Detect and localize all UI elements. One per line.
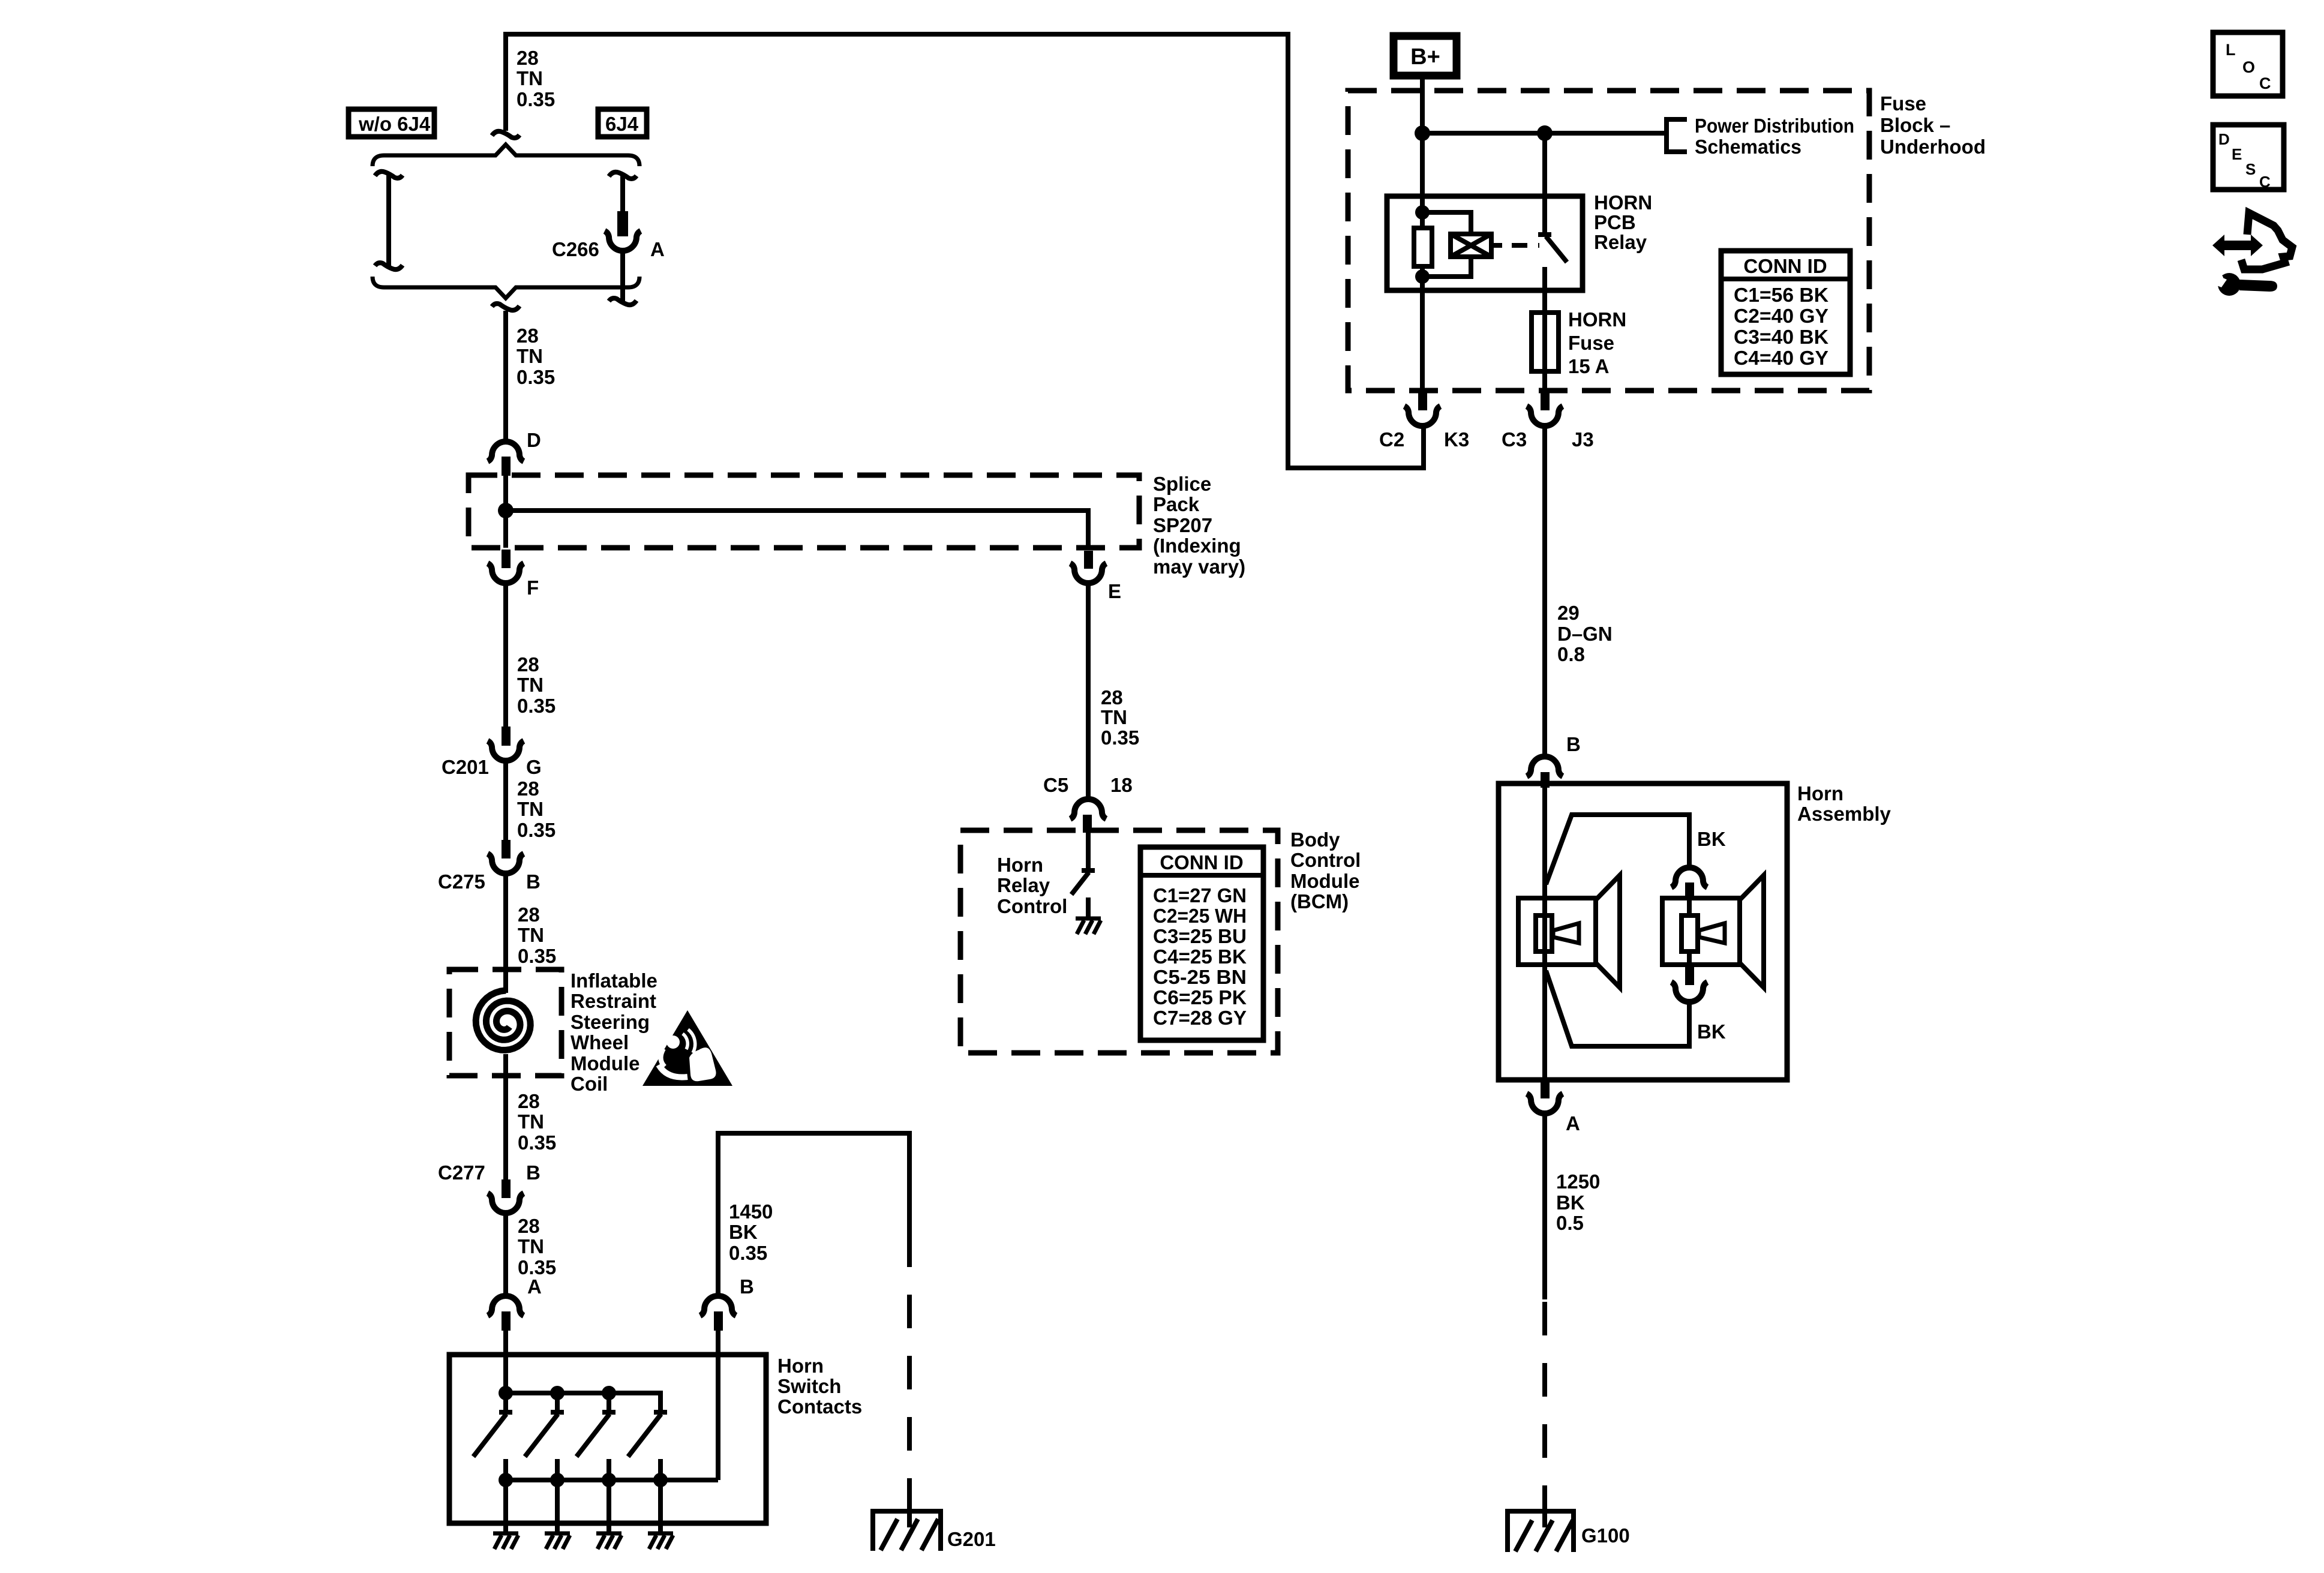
DESC reference box bbox=[2213, 125, 2284, 190]
option box 6J4 bbox=[598, 109, 647, 137]
relay coil winding symbol bbox=[1422, 212, 1471, 234]
svg-text:28: 28 bbox=[517, 778, 539, 800]
brace: option split (top) bbox=[373, 145, 639, 166]
svg-text:Control: Control bbox=[1290, 849, 1361, 871]
svg-text:18: 18 bbox=[1110, 774, 1133, 796]
svg-text:D–GN: D–GN bbox=[1557, 623, 1613, 645]
ground symbol (switch 4) bbox=[648, 1533, 673, 1549]
node: B+ junction bbox=[1415, 125, 1430, 141]
svg-text:C7=28 GY: C7=28 GY bbox=[1153, 1007, 1247, 1029]
wire: dashed drop to G201 bbox=[907, 1233, 912, 1497]
horn relay control driver switch bbox=[1071, 833, 1095, 917]
horn switch contacts box bbox=[449, 1355, 766, 1523]
svg-text:may vary): may vary) bbox=[1153, 556, 1245, 578]
node: ground bus junction 4 bbox=[653, 1473, 668, 1487]
switch contact 3 bbox=[577, 1393, 615, 1532]
wire: E down to BCM C5 bbox=[1086, 584, 1091, 799]
svg-text:A: A bbox=[1566, 1112, 1580, 1134]
svg-text:A: A bbox=[527, 1275, 542, 1298]
svg-text:C201: C201 bbox=[442, 756, 489, 778]
svg-text:TN: TN bbox=[518, 924, 544, 946]
svg-text:C3=40 BK: C3=40 BK bbox=[1734, 326, 1828, 348]
svg-text:Steering: Steering bbox=[571, 1011, 650, 1033]
node: ground bus junction 3 bbox=[602, 1473, 616, 1487]
BCM CONN ID table bbox=[1140, 847, 1263, 1040]
svg-text:Block –: Block – bbox=[1880, 114, 1950, 136]
wire: steering column feed down to splice pack bbox=[503, 311, 508, 442]
svg-text:C3: C3 bbox=[1502, 428, 1527, 451]
horn (left): driver and bell bbox=[1518, 898, 1596, 965]
svg-text:15 A: 15 A bbox=[1568, 355, 1609, 377]
wire hook at option break (top) bbox=[492, 131, 520, 138]
svg-text:CONN ID: CONN ID bbox=[1160, 851, 1243, 873]
ground symbol (switch 3) bbox=[596, 1533, 621, 1549]
svg-text:0.35: 0.35 bbox=[1101, 727, 1139, 749]
svg-text:TN: TN bbox=[517, 345, 543, 367]
relay switch contact bbox=[1538, 235, 1567, 313]
svg-text:0.35: 0.35 bbox=[517, 695, 556, 717]
label: Fuse Block - Underhood bbox=[1880, 92, 1986, 158]
svg-text:0.35: 0.35 bbox=[729, 1242, 767, 1264]
wire label 28 TN 0.35 (E leg) bbox=[1101, 686, 1139, 749]
svg-text:6J4: 6J4 bbox=[605, 113, 639, 135]
node: top bus junction 1 bbox=[499, 1386, 513, 1400]
svg-text:BK: BK bbox=[1556, 1191, 1585, 1214]
svg-text:0.35: 0.35 bbox=[517, 88, 555, 110]
svg-text:Body: Body bbox=[1290, 828, 1340, 851]
svg-text:Horn: Horn bbox=[997, 854, 1043, 876]
svg-text:C266: C266 bbox=[552, 238, 599, 260]
wire label 29 D-GN 0.8 bbox=[1557, 602, 1613, 665]
svg-text:w/o 6J4: w/o 6J4 bbox=[358, 113, 431, 135]
connector F bbox=[502, 550, 511, 568]
wire: 6J4 branch lower bbox=[620, 252, 625, 303]
wire: inside splice pack bbox=[503, 474, 508, 548]
svg-text:0.8: 0.8 bbox=[1557, 643, 1585, 665]
svg-text:Splice: Splice bbox=[1153, 473, 1211, 495]
svg-text:C275: C275 bbox=[438, 870, 485, 893]
svg-text:C2: C2 bbox=[1379, 428, 1404, 451]
horn PCB relay box bbox=[1387, 196, 1583, 290]
svg-text:HORN: HORN bbox=[1594, 191, 1652, 214]
svg-text:Power Distribution: Power Distribution bbox=[1695, 115, 1854, 137]
svg-text:28: 28 bbox=[518, 1090, 540, 1112]
svg-text:C4=40 GY: C4=40 GY bbox=[1734, 347, 1828, 369]
wire: right horn driver through bbox=[1687, 898, 1692, 966]
wire: C275 down to coil bbox=[503, 874, 508, 993]
relay coil resistor bbox=[1414, 228, 1432, 266]
svg-text:28: 28 bbox=[518, 1215, 540, 1237]
wire: switch ground bus (bottom) bbox=[506, 1478, 718, 1482]
svg-text:B: B bbox=[526, 870, 541, 893]
switch contact 1 bbox=[473, 1393, 512, 1532]
label: Horn Relay Control bbox=[997, 854, 1067, 917]
svg-text:Pack: Pack bbox=[1153, 493, 1200, 515]
label: Splice Pack SP207 (Indexing may vary) bbox=[1153, 473, 1245, 578]
wire: 6J4 branch upper bbox=[620, 174, 625, 212]
ground symbol (BCM internal) bbox=[1076, 918, 1101, 934]
svg-text:C4=25 BK: C4=25 BK bbox=[1153, 945, 1247, 968]
wire: switch common bus (top) bbox=[506, 1393, 660, 1411]
icon: repair/navigation arrow with wrench bbox=[2206, 213, 2292, 296]
svg-text:J3: J3 bbox=[1572, 428, 1594, 451]
wire label 28 TN 0.35 (below coil) bbox=[518, 1090, 556, 1154]
svg-text:Contacts: Contacts bbox=[777, 1395, 862, 1418]
svg-text:TN: TN bbox=[517, 674, 544, 696]
svg-text:G100: G100 bbox=[1581, 1524, 1630, 1547]
svg-text:BK: BK bbox=[729, 1221, 758, 1243]
connector A (into horn switch) bbox=[488, 1296, 524, 1316]
svg-text:C: C bbox=[2259, 74, 2271, 92]
svg-text:K3: K3 bbox=[1444, 428, 1469, 451]
label: Inflatable Restraint Steering Wheel Module Coil bbox=[571, 969, 657, 1095]
svg-text:TN: TN bbox=[517, 67, 543, 89]
inflatable restraint steering wheel module coil dashed box bbox=[449, 969, 562, 1076]
fuse block underhood dashed box bbox=[1348, 91, 1869, 391]
wire: w/o 6J4 branch (plain wire) bbox=[386, 173, 391, 268]
body control module dashed box bbox=[960, 830, 1278, 1053]
switch contact 2 bbox=[525, 1393, 564, 1532]
wire label 28 TN 0.35 (below C275) bbox=[518, 903, 556, 967]
svg-text:G201: G201 bbox=[947, 1528, 996, 1550]
connector C2 pin K3 bbox=[1418, 391, 1427, 410]
svg-text:L: L bbox=[2226, 41, 2236, 59]
horn assembly box bbox=[1499, 784, 1787, 1080]
wire label 28 TN 0.35 (above pin A) bbox=[518, 1215, 556, 1278]
in-line connector (right horn feed) bbox=[1671, 867, 1707, 887]
wire: pin B to G201 run bbox=[718, 1133, 909, 1293]
icon: SRS caution triangle bbox=[642, 1010, 732, 1086]
svg-text:B+: B+ bbox=[1410, 44, 1440, 70]
svg-text:0.35: 0.35 bbox=[518, 1131, 556, 1154]
ground G201 bbox=[873, 1511, 941, 1551]
svg-text:0.35: 0.35 bbox=[517, 366, 555, 388]
svg-text:C2=25 WH: C2=25 WH bbox=[1153, 905, 1247, 927]
svg-text:BK: BK bbox=[1697, 828, 1726, 850]
connector C266 pin A bbox=[617, 211, 628, 236]
svg-text:1250: 1250 bbox=[1556, 1170, 1600, 1193]
connector E bbox=[1084, 551, 1093, 569]
svg-text:29: 29 bbox=[1557, 602, 1580, 624]
svg-text:TN: TN bbox=[518, 1110, 544, 1133]
node: top bus junction 2 bbox=[550, 1386, 565, 1400]
wire label 28 TN 0.35 (top) bbox=[517, 47, 555, 110]
svg-text:PCB: PCB bbox=[1594, 211, 1636, 233]
svg-text:1450: 1450 bbox=[729, 1200, 773, 1223]
svg-text:C6=25 PK: C6=25 PK bbox=[1153, 986, 1247, 1008]
wire label 28 TN 0.35 (below C201) bbox=[517, 778, 556, 841]
node: ground bus junction 1 bbox=[499, 1473, 513, 1487]
wire: power distribution tap bbox=[1422, 131, 1667, 136]
svg-text:E: E bbox=[2232, 145, 2242, 163]
connector C201 pin G bbox=[502, 727, 511, 746]
svg-text:C277: C277 bbox=[438, 1161, 485, 1184]
power feed B+ terminal bbox=[1394, 36, 1457, 76]
svg-text:Module: Module bbox=[571, 1052, 639, 1074]
wire: pin A lead into switch box bbox=[503, 1331, 508, 1393]
wire: pin A down bbox=[1542, 1114, 1547, 1299]
svg-text:Wheel: Wheel bbox=[571, 1031, 629, 1053]
svg-text:28: 28 bbox=[517, 325, 539, 347]
horn (right): driver and bell bbox=[1662, 898, 1740, 965]
label: Body Control Module (BCM) bbox=[1290, 828, 1361, 912]
svg-text:0.5: 0.5 bbox=[1556, 1212, 1584, 1234]
connector C275 pin B bbox=[502, 840, 511, 858]
fuse block CONN ID table bbox=[1721, 251, 1850, 374]
wire: C3 down to horn assembly pin B bbox=[1542, 427, 1547, 755]
svg-text:Horn: Horn bbox=[1797, 782, 1843, 804]
wire: top main run from steering-wheel circuit to fuse block C2 bbox=[506, 34, 1424, 468]
svg-text:HORN: HORN bbox=[1568, 308, 1626, 331]
svg-text:Inflatable: Inflatable bbox=[571, 969, 657, 992]
svg-text:28: 28 bbox=[517, 653, 539, 676]
connector D (into splice pack SP207) bbox=[488, 442, 524, 461]
svg-text:Relay: Relay bbox=[1594, 231, 1647, 253]
svg-text:0.35: 0.35 bbox=[518, 945, 556, 967]
switch contact 4 bbox=[628, 1412, 667, 1532]
svg-text:28: 28 bbox=[517, 47, 539, 69]
coil: clockspring spiral bbox=[476, 990, 530, 1050]
ground G100 bbox=[1508, 1511, 1574, 1552]
svg-text:TN: TN bbox=[1101, 706, 1127, 728]
svg-text:C2=40 GY: C2=40 GY bbox=[1734, 305, 1828, 327]
connector C5 pin 18 (into BCM) bbox=[1070, 799, 1106, 819]
wire: C277 down to horn switch pin A bbox=[503, 1214, 508, 1294]
svg-text:Module: Module bbox=[1290, 870, 1359, 892]
svg-text:S: S bbox=[2245, 160, 2256, 178]
node: splice junction bbox=[498, 503, 514, 518]
label: Horn Switch Contacts bbox=[777, 1355, 862, 1418]
node: relay coil top junction bbox=[1415, 205, 1430, 220]
svg-text:D: D bbox=[527, 429, 541, 451]
wire: pin B through left horn to pin A bbox=[1542, 788, 1547, 1080]
svg-text:Assembly: Assembly bbox=[1797, 803, 1891, 825]
horn fuse 15 A bbox=[1532, 313, 1559, 371]
LOC reference box bbox=[2213, 32, 2283, 96]
svg-text:E: E bbox=[1108, 580, 1121, 602]
svg-text:28: 28 bbox=[518, 903, 540, 926]
svg-text:Relay: Relay bbox=[997, 874, 1050, 896]
in-line connector (right horn return) bbox=[1685, 966, 1694, 985]
node: top bus junction 3 bbox=[602, 1386, 616, 1400]
wire: coil output down to C277 bbox=[503, 1054, 508, 1179]
wire: pin B lead into switch box bbox=[716, 1331, 720, 1480]
svg-text:D: D bbox=[2218, 130, 2230, 148]
splice pack SP207 dashed box bbox=[469, 475, 1139, 548]
svg-text:28: 28 bbox=[1101, 686, 1123, 709]
svg-text:B: B bbox=[526, 1161, 541, 1184]
svg-text:Fuse: Fuse bbox=[1880, 92, 1926, 115]
wire label 28 TN 0.35 (below F) bbox=[517, 653, 556, 717]
svg-text:TN: TN bbox=[517, 798, 544, 820]
svg-text:Fuse: Fuse bbox=[1568, 332, 1614, 354]
svg-text:Control: Control bbox=[997, 895, 1067, 917]
svg-text:G: G bbox=[526, 756, 542, 778]
svg-text:BK: BK bbox=[1697, 1020, 1726, 1043]
svg-text:TN: TN bbox=[518, 1235, 544, 1257]
wire: dashed drop to G100 bbox=[1542, 1302, 1547, 1497]
connector B (into horn switch) bbox=[700, 1296, 736, 1316]
wire: branch to right horn (bottom) bbox=[1546, 971, 1689, 1046]
svg-text:(Indexing: (Indexing bbox=[1153, 535, 1241, 557]
brace: option merge (bottom) bbox=[373, 277, 639, 298]
wire: branch to right horn (top) bbox=[1546, 815, 1689, 884]
svg-text:Underhood: Underhood bbox=[1880, 136, 1986, 158]
svg-text:C1=56 BK: C1=56 BK bbox=[1734, 284, 1828, 306]
label: Horn Assembly bbox=[1797, 782, 1891, 825]
svg-text:B: B bbox=[1566, 733, 1581, 755]
label: HORN PCB Relay bbox=[1594, 191, 1652, 253]
svg-text:C3=25 BU: C3=25 BU bbox=[1153, 925, 1247, 947]
wire label 1450 BK 0.35 bbox=[729, 1200, 773, 1264]
relay actuator dashed link bbox=[1491, 243, 1502, 248]
connector A (horn assembly output) bbox=[1541, 1081, 1550, 1098]
wire: fuse to C3 bbox=[1542, 371, 1547, 391]
svg-text:SP207: SP207 bbox=[1153, 514, 1212, 536]
wire: switch feed drop bbox=[1542, 133, 1547, 233]
wire: splice pack crossover to E leg bbox=[506, 511, 1088, 549]
svg-text:C5-25 BN: C5-25 BN bbox=[1153, 966, 1247, 988]
svg-text:Restraint: Restraint bbox=[571, 990, 656, 1012]
connector C277 pin B bbox=[502, 1179, 511, 1198]
wire: C201 to C275 bbox=[503, 761, 508, 840]
ground symbol (switch 1) bbox=[493, 1533, 518, 1549]
svg-text:C5: C5 bbox=[1043, 774, 1068, 796]
ground symbol (switch 2) bbox=[545, 1533, 570, 1549]
svg-text:CONN ID: CONN ID bbox=[1743, 255, 1827, 277]
svg-text:F: F bbox=[527, 577, 539, 599]
wire hook at option break (bottom) bbox=[492, 304, 520, 310]
off-page bracket: Power Distribution Schematics bbox=[1667, 119, 1687, 152]
svg-text:0.35: 0.35 bbox=[517, 819, 556, 841]
svg-text:C1=27 GN: C1=27 GN bbox=[1153, 884, 1247, 906]
svg-text:(BCM): (BCM) bbox=[1290, 890, 1349, 912]
node: relay coil bottom junction bbox=[1415, 269, 1430, 284]
svg-text:Schematics: Schematics bbox=[1695, 136, 1801, 158]
svg-text:O: O bbox=[2242, 58, 2255, 76]
svg-text:C: C bbox=[2259, 173, 2271, 191]
node: switch feed junction bbox=[1537, 125, 1553, 141]
option box w/o 6J4 bbox=[349, 109, 434, 137]
svg-text:Horn: Horn bbox=[777, 1355, 824, 1377]
svg-text:Coil: Coil bbox=[571, 1073, 608, 1095]
svg-text:A: A bbox=[650, 238, 665, 260]
connector B (into horn assembly) bbox=[1527, 757, 1563, 776]
svg-text:Switch: Switch bbox=[777, 1375, 841, 1397]
node: ground bus junction 2 bbox=[550, 1473, 565, 1487]
svg-text:B: B bbox=[740, 1275, 754, 1298]
connector C3 pin J3 bbox=[1541, 391, 1550, 410]
wire label 1250 BK 0.5 bbox=[1556, 1170, 1600, 1234]
wire label 28 TN 0.35 (below merge) bbox=[517, 325, 555, 388]
wire: F down to C201 bbox=[503, 584, 508, 727]
wire: B+ feed down through relay coil to C2 bbox=[1420, 76, 1425, 228]
